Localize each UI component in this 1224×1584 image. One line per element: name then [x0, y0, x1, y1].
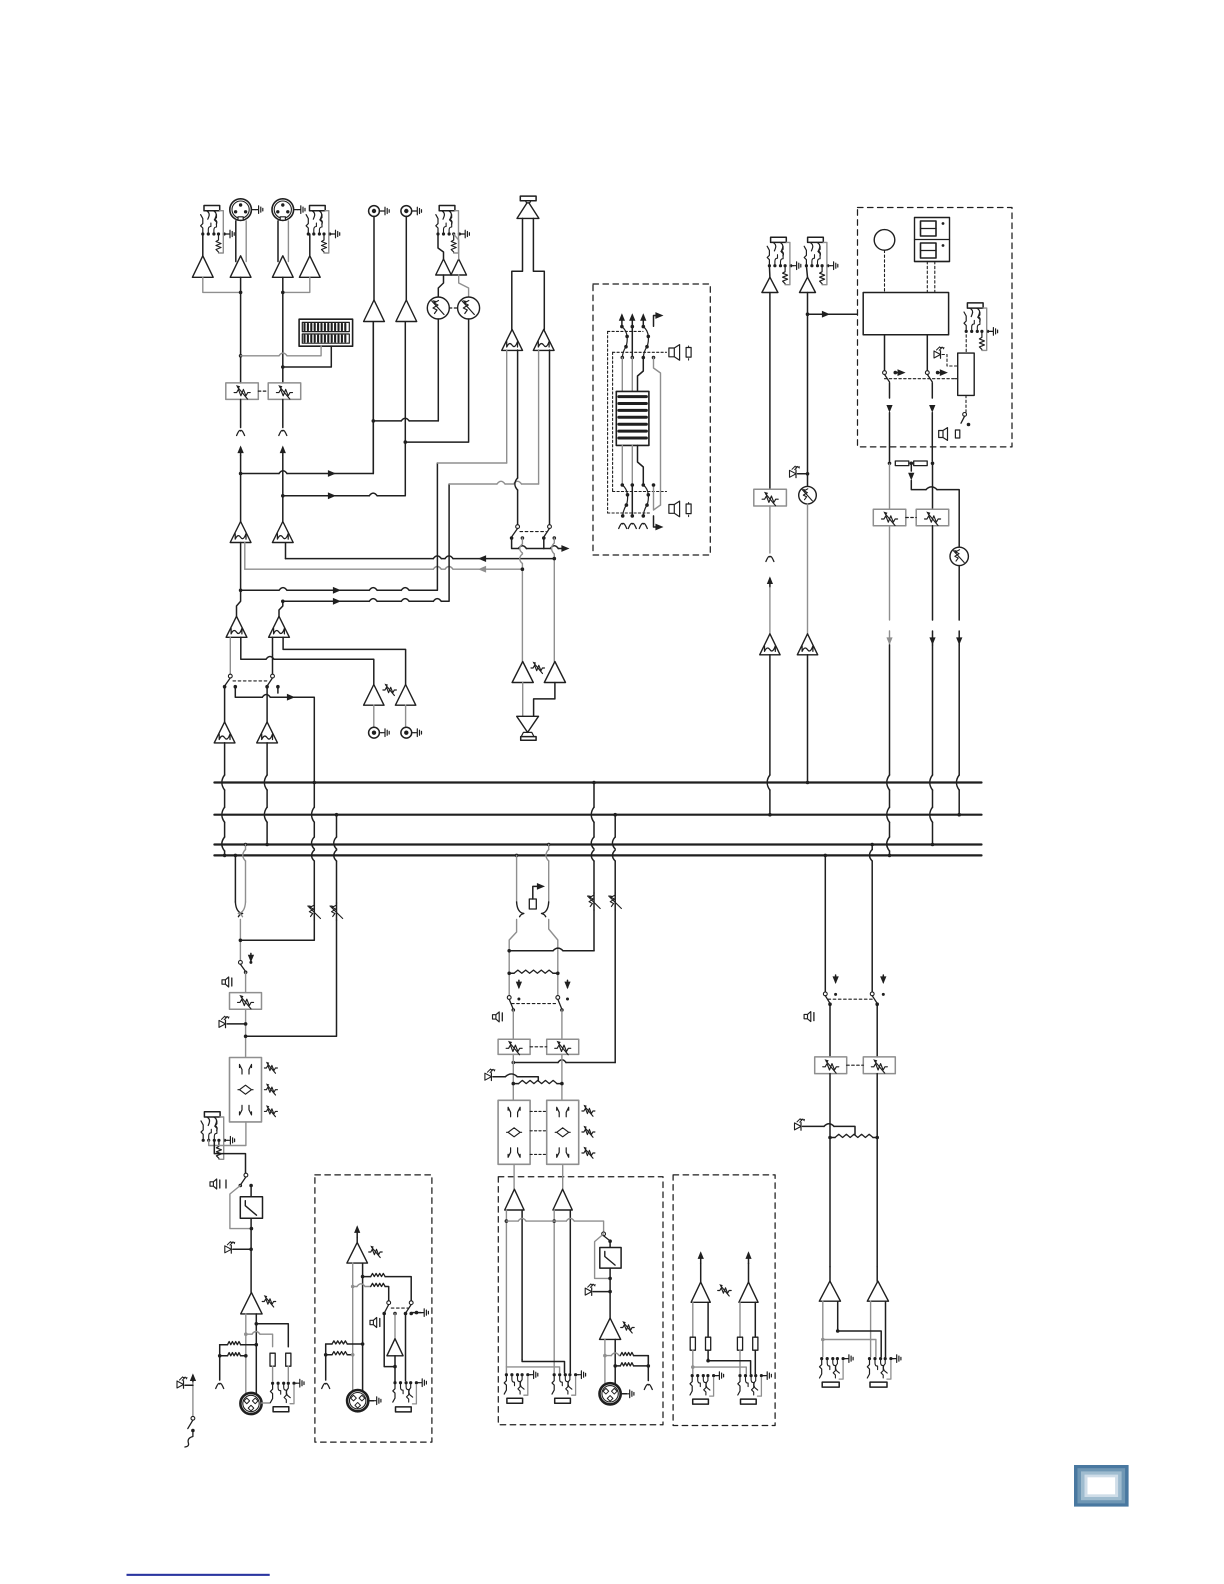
potentiometer VR main R fader [561, 1010, 563, 1039]
wire geq outputs [621, 445, 623, 485]
connector RCA aux out L [369, 727, 380, 738]
op-amp U9 ch1 fader [224, 687, 226, 722]
wire aux R pair [739, 1302, 741, 1337]
potentiometer VR fx to main L [889, 464, 891, 509]
speaker icon mono box mute [370, 1318, 377, 1328]
resistor R13 aux [737, 1337, 742, 1350]
potentiometer VR fx1 level [754, 489, 787, 506]
main amps enclosure [498, 1177, 663, 1425]
led fx signal glyph [790, 470, 797, 477]
wire ch1 aux send row [241, 473, 279, 475]
op-amp U5 ch1 eq [230, 522, 251, 543]
bus line 3 aux one [214, 843, 981, 845]
op-amp U2 ch1 mic preamp [230, 256, 251, 277]
led master pfl glyph [795, 1123, 802, 1130]
resistor R8 main sum [519, 1080, 557, 1083]
wire master mute gang [828, 998, 874, 1000]
wire control room send [512, 538, 519, 549]
resistor VR mono box gain [369, 1249, 383, 1254]
wire tape L to amp [373, 216, 375, 300]
wire ch2 fader to bus [266, 743, 268, 775]
wire monitor feed R vertical [449, 483, 497, 485]
node ch2 monitor tap [281, 600, 285, 604]
jack J12 main out R inside [553, 1373, 556, 1376]
jack J3 stereo aux return [439, 206, 455, 211]
op-amp U24 fx1 out [760, 634, 780, 655]
fx processor enclosure [858, 208, 1013, 447]
wire insert return [214, 1140, 245, 1173]
wire ch2 monitor row [283, 600, 369, 602]
wire cross link gray [506, 1367, 559, 1373]
wire monitor feed L vertical [437, 462, 506, 464]
wire U17 black out [517, 350, 519, 478]
resistor R5 mono zigzag [228, 1342, 241, 1345]
potentiometer VR master R [876, 1004, 878, 1057]
jack J2 line-in ch2 [310, 206, 326, 211]
wire geq step arrow [654, 316, 660, 327]
wire J7 to U23 [806, 266, 807, 278]
wire phones R to amp [534, 683, 555, 717]
switch SW11 fx kill [963, 413, 967, 417]
wire U17 gray out [506, 350, 508, 463]
resistor R18 mono box left [332, 1341, 347, 1344]
wire main fader gang [530, 1046, 547, 1048]
connector RCA aux out R [401, 727, 412, 738]
wire aux L pair [692, 1302, 694, 1337]
wire fx2 feed arrow [808, 313, 858, 315]
wire fx2 to bus1 [807, 655, 809, 783]
wire master R pair out [870, 1301, 872, 1356]
wire fx L to bus4 [889, 526, 891, 620]
wire aux cross black [706, 1359, 710, 1363]
wire lamp dotted [884, 250, 886, 292]
resistor LDR2 aux level R [459, 275, 469, 297]
op-amp U18 monitor R [533, 329, 554, 350]
wire display dotted [926, 262, 928, 293]
wire pfl feed [235, 687, 262, 698]
op-amp U15 aux send L [364, 685, 384, 706]
mono out enclosure [315, 1175, 432, 1442]
switch SW1 ch1 mute [228, 674, 232, 678]
wire U18 black out [549, 350, 551, 525]
wire master R from bus3 [870, 843, 874, 847]
wire resistors to jack [272, 1366, 274, 1381]
wire U16 to RCA [405, 705, 407, 727]
switch SW18 master mute L [823, 992, 827, 996]
wire mainmix L from bus4 [515, 854, 519, 858]
wire mono xlr branch gray [244, 1332, 248, 1336]
potentiometer VR mono level [230, 993, 262, 1010]
wire aux2 to mono strip [246, 920, 337, 1036]
wire dsp out R [926, 335, 928, 371]
wire mute gang [233, 680, 269, 682]
wire monitor return right row [244, 543, 246, 570]
wire mono balanced pair [245, 1314, 247, 1393]
wire mono to pot [245, 972, 247, 992]
wire master cross gray [821, 1338, 825, 1342]
switch SW20 mono box L [387, 1301, 391, 1305]
op-amp U21 headphone driver [517, 716, 539, 732]
resistor R3 mono out [270, 1353, 275, 1366]
wire geq bottom step arrow [654, 516, 660, 527]
wire monitor L down [521, 538, 523, 544]
wire monitor select gang [520, 531, 546, 533]
wire ch1 aux tap [241, 637, 266, 659]
wire subin L join [563, 950, 594, 952]
wire master L down [829, 1074, 831, 1267]
wire meter tap ch1 [239, 354, 243, 358]
relay block footswitch logic [958, 353, 975, 395]
resistor VR aux master [383, 687, 397, 692]
op-amp U17 monitor L [502, 329, 523, 350]
wire fx1 to bus2 [769, 655, 771, 775]
led mono pfl2 glyph [225, 1246, 232, 1253]
wire mono tap bus4 [234, 854, 238, 858]
wire dsp out L [884, 335, 886, 371]
lamp fx indicator [874, 230, 895, 251]
display 7seg program [915, 218, 950, 262]
wire LDR2 to tape R [405, 319, 468, 442]
wire pfl to mono strip [240, 920, 314, 940]
graphic EQ enclosure [593, 284, 710, 555]
node ch2 aux send tap [281, 494, 285, 498]
speaker icon geq bottom [669, 501, 680, 517]
wire ch2 aux tap [283, 637, 406, 684]
wire ch1 below trim with break [240, 399, 242, 427]
led fx footswitch glyph [934, 351, 941, 358]
resistor VR pfl trim [313, 903, 315, 920]
op-amp U1 ch1 jack preamp [192, 256, 213, 277]
op-amp U25 fx2 out [797, 634, 817, 655]
wire fx mute stub arrows [894, 371, 898, 375]
wire mono box ref stub [325, 1344, 327, 1380]
wire insert send [209, 1122, 246, 1146]
wire main feed R from bus2 [613, 813, 617, 817]
resistor R12 aux [706, 1337, 711, 1350]
wire aux cross gray [691, 1365, 695, 1369]
wire mono box arrow [356, 1227, 358, 1237]
wire ch2 rowA to rowB [279, 601, 283, 616]
wire main R pair [553, 1210, 555, 1373]
speaker icon mainmix mute [493, 1012, 500, 1022]
wire mono hooks [235, 902, 242, 917]
bus line 2 main right [214, 814, 981, 816]
wire mono box pair [352, 1263, 354, 1390]
wire ch1 rowA to rowB [237, 543, 241, 617]
wire subin R join [566, 1062, 615, 1064]
switch SW3 monitor source L [516, 525, 520, 529]
wire ch1 down [240, 277, 242, 383]
wire mainmix R from bus3 [547, 843, 551, 847]
op-amp U11 tape L [364, 300, 385, 322]
filter block mono lowcut [250, 1186, 252, 1197]
wire fx wet to bus2 [958, 566, 960, 620]
switch SW13 mono lowcut select [244, 1173, 248, 1177]
resistor VR mono eq lf [264, 1109, 277, 1114]
wire monitor R down [553, 538, 555, 543]
switch SW19 master mute R [870, 992, 874, 996]
op-amp U20 phones R [544, 662, 565, 683]
wire ch2 down [282, 277, 284, 383]
wire xlr3 ground link [262, 1402, 270, 1404]
node ch1 aux send tap [239, 472, 243, 476]
wire LDR1 to tape L [437, 319, 439, 421]
button navigation blue [1074, 1465, 1129, 1507]
jack J9 mono insert [204, 1112, 220, 1117]
resistor VR submix R trim [614, 893, 616, 910]
wire mono ref stub [219, 1345, 221, 1380]
jack J4 phones-2tk plate [520, 196, 536, 201]
wire XLR1 to preamp [235, 221, 237, 262]
wire main feed L down [593, 910, 595, 951]
resistor R1 fx wet [895, 461, 909, 466]
wire mono xlr branch right [254, 1322, 258, 1326]
op-amp U19 phones L [512, 662, 533, 683]
wire U4 out join [283, 277, 310, 292]
op-amp U34 mono box amp [347, 1242, 368, 1263]
connector XLR5 mono box out [347, 1390, 368, 1411]
wire fx2 to U25 [807, 504, 809, 634]
wire sub branch gray [603, 1354, 607, 1358]
wire fx2 down [807, 293, 809, 487]
wire geq mid line bottom [631, 485, 633, 516]
op-amp U10 ch2 fader [266, 687, 268, 722]
op-amp U16 aux send R [395, 685, 415, 706]
wire U1 out join [203, 277, 241, 292]
node mono box tap1 [361, 1275, 365, 1279]
wire geq dotted control rect outer [607, 331, 609, 513]
switch SW16 mainmix R [556, 996, 560, 1000]
wire mainmix hooks [517, 902, 524, 917]
connector XLR4 sub out [600, 1383, 621, 1404]
wire jack to relay dotted [965, 335, 967, 353]
wire fx mute dotted gang [885, 378, 956, 380]
resistor VR sub gain [621, 1325, 634, 1330]
wire main R down [561, 1054, 563, 1100]
connector 2tk plug body [517, 203, 539, 219]
wire master R down [876, 1074, 878, 1267]
potentiometer VR1 trim ch1 [226, 383, 258, 400]
node fx wet R [931, 462, 935, 466]
wire phones L to amp [522, 683, 524, 717]
switch SW21 mono box R [409, 1301, 413, 1305]
wire ch1 fader to bus [224, 743, 226, 775]
speaker icon mono mute [222, 977, 229, 987]
wire xlr5 ground [369, 1400, 374, 1402]
wire mono sum out [394, 1356, 396, 1383]
jack J6 fx return 1 [771, 237, 787, 242]
wire pfl vertical below bus [313, 781, 317, 785]
node ch1 monitor tap [239, 589, 243, 593]
wire fx pot gang [906, 517, 916, 519]
resistor R16 mono box [363, 1276, 371, 1278]
led sub pfl glyph [585, 1288, 592, 1295]
node fx wet L [888, 462, 892, 466]
jack J10 mono out jack [271, 1382, 274, 1385]
resistor R9 sub zigzag [620, 1352, 633, 1355]
switch SW7 geq bypass bottom left [621, 483, 625, 487]
resistor R19 mono box left [332, 1352, 347, 1355]
jack insert indicator [529, 899, 536, 909]
resistor VR mono gain [262, 1299, 276, 1304]
potentiometer VR fx to main R [932, 464, 934, 509]
wire glyph dotted [942, 355, 958, 367]
wire eq gang dotted [530, 1110, 547, 1112]
wire eq to amps [513, 1164, 515, 1189]
switch SW2 ch2 mute [271, 674, 275, 678]
link underline blue [127, 1574, 270, 1576]
jack J5 phones out [521, 732, 534, 736]
wire main feed R down [614, 910, 616, 1063]
wire mono tap bus3 [244, 843, 248, 847]
wire fx1 down to bus [769, 293, 771, 490]
wire U18 gray out [538, 350, 540, 484]
op-amp U27 main L [505, 1189, 524, 1210]
resistor VR main eq mid [582, 1129, 595, 1134]
speaker icon mono mute2 [210, 1179, 217, 1189]
wire sub balanced pair [604, 1339, 606, 1383]
op-amp U33 master amp R [876, 1267, 878, 1281]
resistor LDR1 aux level L [438, 275, 443, 297]
node ch1 sum [239, 291, 243, 295]
jack J16 master out R [868, 1357, 871, 1360]
resistor R11 aux [690, 1337, 695, 1350]
op-amp U13 aux ret L [436, 259, 452, 275]
switch SW5 geq bypass top left [620, 325, 624, 329]
wire geq bypass line [652, 356, 656, 360]
wire ch1 monitor row [241, 589, 279, 591]
wire master L pair out [822, 1301, 824, 1356]
resistor R17 mono box [353, 1286, 357, 1288]
wire fx out L arrow [889, 383, 891, 398]
wire mainmix mute gang [512, 1003, 556, 1005]
filter block sub lowcut [609, 1241, 611, 1247]
wire tape L join [372, 322, 374, 474]
op-amp U8 ch2 eq2 [269, 616, 290, 637]
wire J2 to U4 [308, 234, 310, 256]
wire ch2 to mute [272, 637, 274, 655]
eq block main R [547, 1100, 579, 1164]
wire monitor return left row [285, 543, 287, 559]
bus line 4 aux two [214, 854, 981, 856]
node mono aux join [244, 1035, 248, 1039]
wire fx R to bus3 [932, 526, 934, 620]
wire mono sum tap [505, 1219, 509, 1223]
wire 2tk sleeve pair [512, 218, 523, 329]
speaker icon geq top [669, 345, 680, 361]
wire fx out R arrow [931, 383, 933, 398]
resistor R10 sub zigzag [613, 1364, 617, 1368]
wire tape R to amp [405, 216, 407, 300]
connector RCA tape-in L [369, 206, 380, 217]
node fx2 to processor [806, 312, 810, 316]
resistor VR mono eq mid [264, 1087, 277, 1092]
resistor R14 aux [753, 1337, 758, 1350]
resistor VR main eq hf [582, 1108, 595, 1113]
switch SW9 fx mute L [883, 371, 887, 375]
resistor R7 mainmix sum [514, 970, 553, 973]
speaker icon fx mute [939, 428, 948, 441]
jack J11 main out L inside [505, 1373, 508, 1376]
jack J13 aux out L [691, 1374, 694, 1377]
wire mono box bypass [384, 1314, 395, 1367]
graphic EQ slider block [616, 391, 649, 445]
wire relay to switch dotted [965, 395, 967, 412]
op-amp U31 aux out R [739, 1282, 758, 1302]
switch SW10 fx mute R [925, 371, 929, 375]
jack J15 master out L [820, 1357, 823, 1360]
switch SW15 mainmix L [507, 996, 511, 1000]
wire master pot gang [847, 1064, 864, 1066]
jack J1 line-in ch1 [204, 206, 220, 211]
wire geq out breaks [619, 523, 627, 528]
resistor LDR3 fx2 [799, 486, 817, 504]
speaker icon master mute [804, 1012, 811, 1022]
dsp block fx engine [863, 293, 948, 335]
wire U15 to RCA [373, 705, 375, 727]
node mono pfl join [239, 939, 243, 943]
potentiometer VR master L [829, 1004, 831, 1057]
wire geq channel lines [621, 358, 623, 392]
connector XLR2 mic ch2 [272, 199, 294, 221]
resistor VR main eq lf [582, 1150, 595, 1155]
switch SW8 geq bypass bottom right [642, 483, 646, 487]
wire mainmix L jog [509, 920, 516, 996]
resistor VR aux2 trim [336, 903, 338, 920]
wire mono below pot [245, 1009, 247, 1057]
wire lowcut bypass [230, 1186, 252, 1229]
wire ch2 below trim with break [282, 399, 284, 427]
resistor R6 mono zigzag [228, 1353, 241, 1356]
wire geq mid line [631, 327, 633, 358]
op-amp U7 ch1 eq2 [226, 616, 247, 637]
resistor R4 mono out [286, 1353, 291, 1366]
op-amp U22 fx ret 1 [762, 277, 778, 292]
wire XLR2 to preamp [277, 221, 279, 262]
wire main L pair [505, 1210, 507, 1373]
wire mono stub arrow [250, 953, 252, 960]
wire sub lowcut bypass [595, 1234, 611, 1279]
switch SW6 geq bypass top right [642, 325, 646, 329]
bus line 1 main left [214, 781, 981, 783]
jack J8 footswitch [967, 303, 983, 308]
connector XLR3 mono out [240, 1393, 261, 1414]
wire mainmix R jog [549, 920, 558, 996]
potentiometer VR main L fader [512, 1010, 514, 1039]
wire meter tap ch2 [281, 365, 285, 369]
wire aux below resistors [692, 1350, 694, 1374]
wire ch2 aux send row [283, 495, 369, 497]
connector XLR1 mic ch1 [230, 199, 252, 221]
jack J7 fx return 2 [808, 237, 824, 242]
resistor VR aux out level [718, 1288, 731, 1293]
wire J1 to U1 [202, 234, 204, 256]
wire cross link black [522, 1360, 564, 1373]
wire aux arrows [700, 1253, 702, 1263]
led mono pfl glyph [219, 1020, 226, 1027]
resistor VR mono eq hf [264, 1065, 277, 1070]
resistor LDR4 fx wet [950, 547, 968, 565]
op-amp U12 tape R [396, 300, 417, 322]
wire LDR gang [449, 307, 457, 309]
jack J17 mono box out [393, 1381, 396, 1384]
op-amp U30 aux out L [691, 1282, 710, 1302]
jack J14 aux out R [738, 1374, 741, 1377]
wire wet mid down arrow [910, 463, 912, 471]
node fx wet mid [910, 462, 914, 466]
switch SW12 mono source [239, 961, 243, 965]
resistor VR submix L trim [593, 893, 595, 910]
